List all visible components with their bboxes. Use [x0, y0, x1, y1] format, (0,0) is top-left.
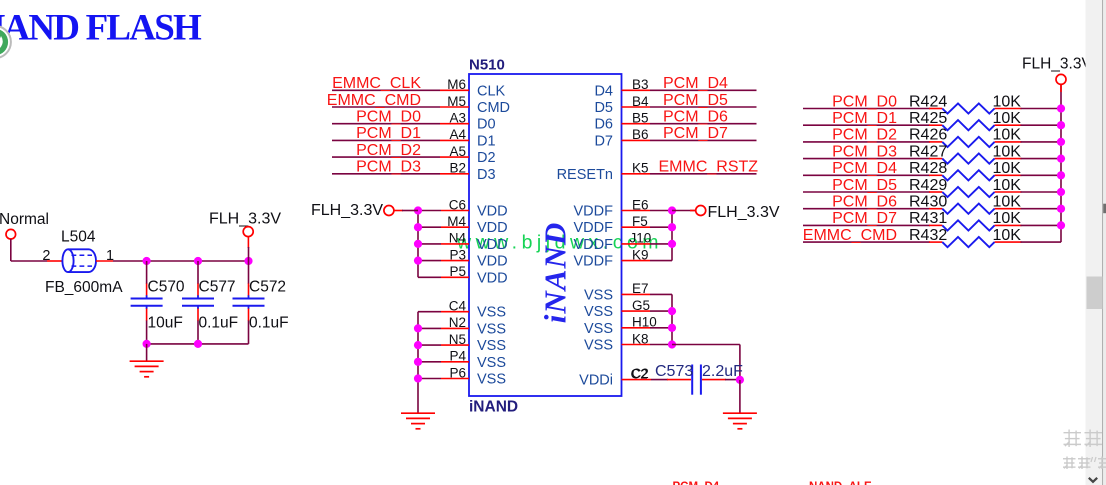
svg-text:R425: R425 [909, 110, 947, 127]
wire to ground stem [146, 344, 148, 361]
svg-text:N510: N510 [469, 57, 505, 74]
wire Normal terminal down [10, 239, 12, 261]
activation watermark line 1 (激活 Win...) [1064, 432, 1082, 434]
VSS bus right junction dots [668, 307, 676, 315]
svg-text:PCM_D6: PCM_D6 [663, 109, 728, 126]
wire FLH terminal to VDD bus [394, 210, 403, 212]
pull-up resistor zigzags R424-R432 [942, 103, 994, 113]
pin 2 stub (red) [47, 260, 63, 262]
svg-text:D2: D2 [477, 150, 496, 166]
svg-text:Normal: Normal [0, 211, 49, 228]
VSS bus junction dots [414, 324, 422, 332]
junction dots top rail [143, 257, 151, 265]
svg-text:EMMC_CMD: EMMC_CMD [803, 227, 897, 244]
rail terminal red stub [1060, 85, 1062, 92]
wire VSS bus to cap node [672, 344, 740, 346]
pin 1 stub (red) [96, 260, 113, 262]
svg-text:VSS: VSS [477, 338, 506, 354]
svg-text:VSS: VSS [584, 304, 613, 320]
svg-text:R430: R430 [909, 194, 947, 211]
svg-text:D5: D5 [594, 100, 613, 116]
ground VSS left [401, 412, 435, 414]
svg-text:VDDF: VDDF [574, 254, 614, 270]
ground left caps [130, 360, 164, 362]
scrollbar track [1086, 0, 1106, 485]
svg-text:VSS: VSS [584, 321, 613, 337]
svg-text:PCM_D7: PCM_D7 [832, 210, 897, 227]
svg-text:PCM_D3: PCM_D3 [832, 143, 897, 160]
terminal FLH_3.3V chip right [696, 206, 706, 216]
wire FLH terminal stub [247, 237, 249, 248]
svg-text:10K: 10K [993, 127, 1022, 144]
svg-text:1: 1 [106, 248, 114, 264]
wire VDDi pin [622, 379, 652, 381]
svg-text:R429: R429 [909, 177, 947, 194]
svg-text:VSS: VSS [477, 372, 506, 388]
svg-text:PCM_D5: PCM_D5 [832, 177, 897, 194]
IC N510 body [469, 74, 622, 396]
svg-text:CLK: CLK [477, 83, 506, 99]
svg-text:PCM_D1: PCM_D1 [832, 110, 897, 127]
VDD bus junction dots [414, 206, 422, 214]
scrollbar inner line [1102, 0, 1104, 485]
svg-text:PCM_D2: PCM_D2 [356, 142, 421, 159]
svg-text:0.1uF: 0.1uF [199, 315, 239, 332]
svg-text:C577: C577 [199, 279, 236, 296]
junction dot C573 node [736, 376, 744, 384]
svg-text:RESETn: RESETn [557, 167, 613, 183]
svg-text:R424: R424 [909, 93, 947, 110]
svg-text:EMMC_CMD: EMMC_CMD [327, 92, 421, 109]
svg-text:VDD: VDD [477, 204, 508, 220]
svg-text:PCM_D1: PCM_D1 [356, 125, 421, 142]
svg-text:NAND_ALE: NAND_ALE [809, 481, 872, 485]
wire bead to caps top rail [113, 260, 249, 262]
svg-text:CMD: CMD [477, 100, 510, 116]
svg-text:D0: D0 [477, 117, 496, 133]
svg-text:FB_600mA: FB_600mA [45, 279, 123, 296]
svg-text:R432: R432 [909, 227, 947, 244]
junction dots bottom rail [143, 340, 151, 348]
svg-text:D6: D6 [594, 117, 613, 133]
rail junction dots [1057, 104, 1065, 112]
svg-text:FLH_3.3V: FLH_3.3V [1022, 55, 1092, 72]
svg-text:VDD: VDD [477, 220, 508, 236]
svg-text:EMMC_CLK: EMMC_CLK [332, 75, 421, 92]
svg-text:PCM_D4: PCM_D4 [832, 160, 897, 177]
svg-text:C2: C2 [632, 366, 649, 381]
svg-text:C572: C572 [249, 279, 286, 296]
svg-text:VDDF: VDDF [574, 220, 614, 236]
svg-text:D4: D4 [594, 83, 613, 99]
VDD bus left wires [417, 211, 419, 278]
capacitor C577 [197, 261, 199, 284]
svg-text:FLH_3.3V: FLH_3.3V [209, 210, 281, 227]
svg-text:FLH_3.3V: FLH_3.3V [311, 202, 383, 219]
svg-text:VSS: VSS [477, 321, 506, 337]
VDDF bus right wires [671, 211, 673, 261]
svg-text:D3: D3 [477, 167, 496, 183]
svg-text:VDDF: VDDF [574, 237, 614, 253]
capacitor C573 [667, 379, 691, 381]
svg-text:VSS: VSS [584, 338, 613, 354]
svg-text:VSS: VSS [477, 305, 506, 321]
capacitor C572 [248, 261, 250, 284]
svg-text:10K: 10K [993, 194, 1022, 211]
svg-text:PCM_D0: PCM_D0 [356, 109, 421, 126]
svg-text:10K: 10K [993, 227, 1022, 244]
svg-text:PCM_D3: PCM_D3 [356, 159, 421, 176]
svg-text:10K: 10K [993, 143, 1022, 160]
svg-text:R431: R431 [909, 210, 947, 227]
scrollbar thumb [1087, 277, 1103, 310]
svg-text:PCM_D0: PCM_D0 [832, 93, 897, 110]
VSS bus right wires [671, 294, 673, 344]
terminal FLH_3.3V chip left [384, 206, 394, 216]
svg-text:VDDi: VDDi [579, 373, 613, 389]
wires data right with pin stubs [622, 89, 651, 91]
svg-text:R428: R428 [909, 160, 947, 177]
terminal FLH_3.3V left circuit [243, 227, 253, 237]
svg-text:PCM_D4: PCM_D4 [663, 75, 728, 92]
activation watermark line 2 [1063, 458, 1076, 460]
svg-text:R427: R427 [909, 143, 947, 160]
svg-text:10K: 10K [993, 93, 1022, 110]
svg-text:PCM_D2: PCM_D2 [832, 127, 897, 144]
terminal FLH_3.3V rail [1056, 74, 1066, 84]
svg-text:L504: L504 [61, 229, 96, 246]
wire VDDF bus to terminal [672, 210, 696, 212]
VDDF bus junction dots [668, 206, 676, 214]
svg-text:VDD: VDD [477, 270, 508, 286]
ferrite bead L504 body [62, 249, 96, 272]
wire cap node to ground [739, 380, 741, 413]
svg-text:10K: 10K [993, 210, 1022, 227]
wires data left with pin stubs [332, 89, 440, 91]
svg-text:10uF: 10uF [148, 315, 183, 332]
svg-text:FLH_3.3V: FLH_3.3V [708, 204, 780, 221]
svg-text:C570: C570 [148, 279, 185, 296]
pull-up resistor row wires [803, 108, 930, 110]
svg-text:D1: D1 [477, 133, 496, 149]
ground C573 [723, 412, 757, 414]
svg-text:PCM_D6: PCM_D6 [832, 194, 897, 211]
green circular icon (clipped at left edge) [0, 26, 11, 58]
svg-text:PCM_D5: PCM_D5 [663, 92, 728, 109]
VSS bus left wires [417, 312, 419, 413]
svg-text:EMMC_RSTZ: EMMC_RSTZ [659, 159, 759, 176]
svg-text:VDD: VDD [477, 254, 508, 270]
svg-text:10K: 10K [993, 110, 1022, 127]
svg-text:R426: R426 [909, 127, 947, 144]
capacitor C570 [146, 261, 148, 284]
svg-text:0.1uF: 0.1uF [249, 315, 289, 332]
svg-text:VSS: VSS [584, 287, 613, 303]
svg-text:VSS: VSS [477, 355, 506, 371]
window edge mark [1103, 204, 1106, 214]
pull-up rail [1060, 85, 1062, 242]
scrollbar down arrow [1089, 478, 1097, 482]
svg-text:iNAND: iNAND [538, 222, 573, 323]
svg-text:NAND FLASH: NAND FLASH [0, 8, 202, 49]
svg-text:VDD: VDD [477, 237, 508, 253]
svg-text:PCM_D7: PCM_D7 [663, 125, 728, 142]
svg-text:VDDF: VDDF [574, 204, 614, 220]
svg-text:C573: C573 [655, 363, 693, 380]
svg-text:10K: 10K [993, 160, 1022, 177]
svg-text:PCM_D4: PCM_D4 [673, 481, 720, 485]
terminal Normal [6, 229, 16, 239]
svg-text:iNAND: iNAND [469, 399, 518, 416]
svg-text:D7: D7 [594, 133, 613, 149]
wire caps bottom rail [147, 343, 249, 345]
svg-text:10K: 10K [993, 177, 1022, 194]
